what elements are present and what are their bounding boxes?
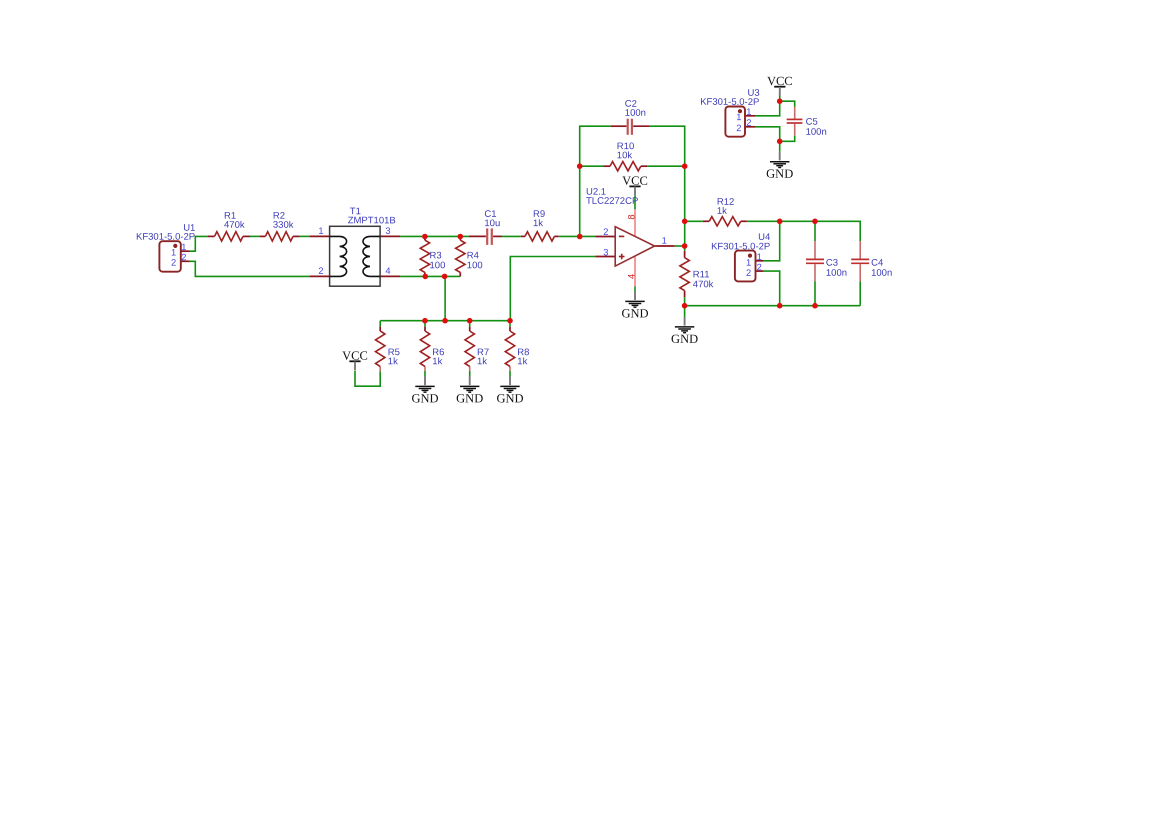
svg-text:GND: GND: [411, 391, 438, 405]
svg-text:2: 2: [603, 227, 608, 237]
svg-text:330k: 330k: [273, 220, 294, 231]
svg-text:3: 3: [385, 226, 390, 236]
svg-text:1: 1: [757, 252, 762, 262]
svg-text:GND: GND: [671, 332, 698, 346]
svg-text:100n: 100n: [625, 108, 646, 119]
svg-text:1: 1: [746, 258, 751, 268]
svg-text:1: 1: [746, 107, 751, 117]
svg-text:100n: 100n: [806, 127, 827, 138]
svg-text:2: 2: [757, 262, 762, 272]
svg-text:2: 2: [746, 268, 751, 278]
svg-text:1k: 1k: [388, 356, 398, 367]
svg-text:1k: 1k: [517, 356, 527, 367]
svg-text:1k: 1k: [533, 218, 543, 229]
svg-text:470k: 470k: [224, 220, 245, 231]
svg-text:KF301-5.0-2P: KF301-5.0-2P: [136, 232, 195, 243]
svg-text:100n: 100n: [826, 268, 847, 279]
svg-text:100: 100: [467, 260, 483, 271]
svg-text:1k: 1k: [432, 356, 442, 367]
svg-text:2: 2: [181, 252, 186, 262]
svg-text:GND: GND: [456, 391, 483, 405]
svg-text:1: 1: [171, 248, 176, 258]
svg-text:1: 1: [181, 242, 186, 252]
svg-text:3: 3: [603, 247, 608, 257]
svg-text:100n: 100n: [871, 268, 892, 279]
svg-text:100: 100: [429, 260, 445, 271]
svg-text:GND: GND: [496, 391, 523, 405]
svg-text:10u: 10u: [484, 218, 500, 229]
svg-text:1k: 1k: [717, 206, 727, 217]
svg-text:KF301-5.0-2P: KF301-5.0-2P: [711, 241, 770, 252]
svg-text:ZMPT101B: ZMPT101B: [348, 215, 396, 226]
svg-text:1k: 1k: [477, 356, 487, 367]
svg-text:2: 2: [171, 258, 176, 268]
svg-text:1: 1: [318, 226, 323, 236]
svg-text:8: 8: [626, 214, 636, 219]
svg-text:10k: 10k: [617, 150, 633, 161]
svg-text:GND: GND: [766, 167, 793, 181]
svg-text:2: 2: [736, 123, 741, 133]
svg-text:1: 1: [736, 112, 741, 122]
svg-text:1: 1: [662, 236, 667, 246]
svg-text:TLC2272CP: TLC2272CP: [586, 196, 638, 207]
svg-text:2: 2: [746, 118, 751, 128]
svg-text:470k: 470k: [693, 279, 714, 290]
svg-text:GND: GND: [621, 306, 648, 320]
svg-text:4: 4: [626, 274, 636, 279]
svg-text:2: 2: [318, 266, 323, 276]
svg-text:4: 4: [385, 266, 390, 276]
